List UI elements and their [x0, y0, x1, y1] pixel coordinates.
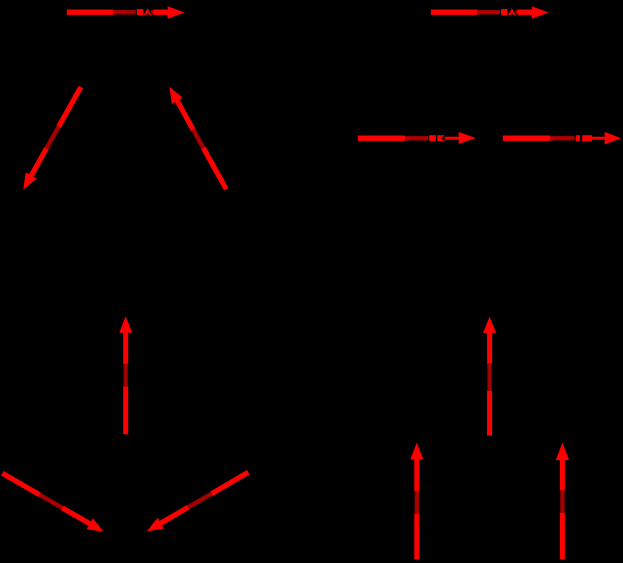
- edge arrow E2 (top-right, points right): [431, 6, 549, 18]
- edge arrow E11 (bottom-right middle vertical, points up): [483, 317, 496, 436]
- edge arrow E7 (bottom-left diagonal, points down-right): [2, 473, 103, 531]
- edge arrow E10 (bottom-right left vertical, points up): [410, 443, 423, 560]
- edge arrow E8 (bottom-middle diagonal, points down-left): [147, 472, 248, 531]
- edge arrow E5 (upper-left diagonal, points down-left): [23, 87, 81, 190]
- edge arrow E6 (upper-middle diagonal, points up-left): [169, 87, 226, 190]
- edge arrow E1 (top-left, points right): [67, 6, 185, 19]
- edge arrow E9 (mid-left vertical, points up): [119, 316, 132, 434]
- edge arrow E3 (middle-right first, points right): [358, 132, 476, 144]
- edge arrow E4 (middle-right second, points right): [503, 132, 621, 145]
- edge arrow E12 (bottom-right right vertical, points up): [556, 443, 569, 560]
